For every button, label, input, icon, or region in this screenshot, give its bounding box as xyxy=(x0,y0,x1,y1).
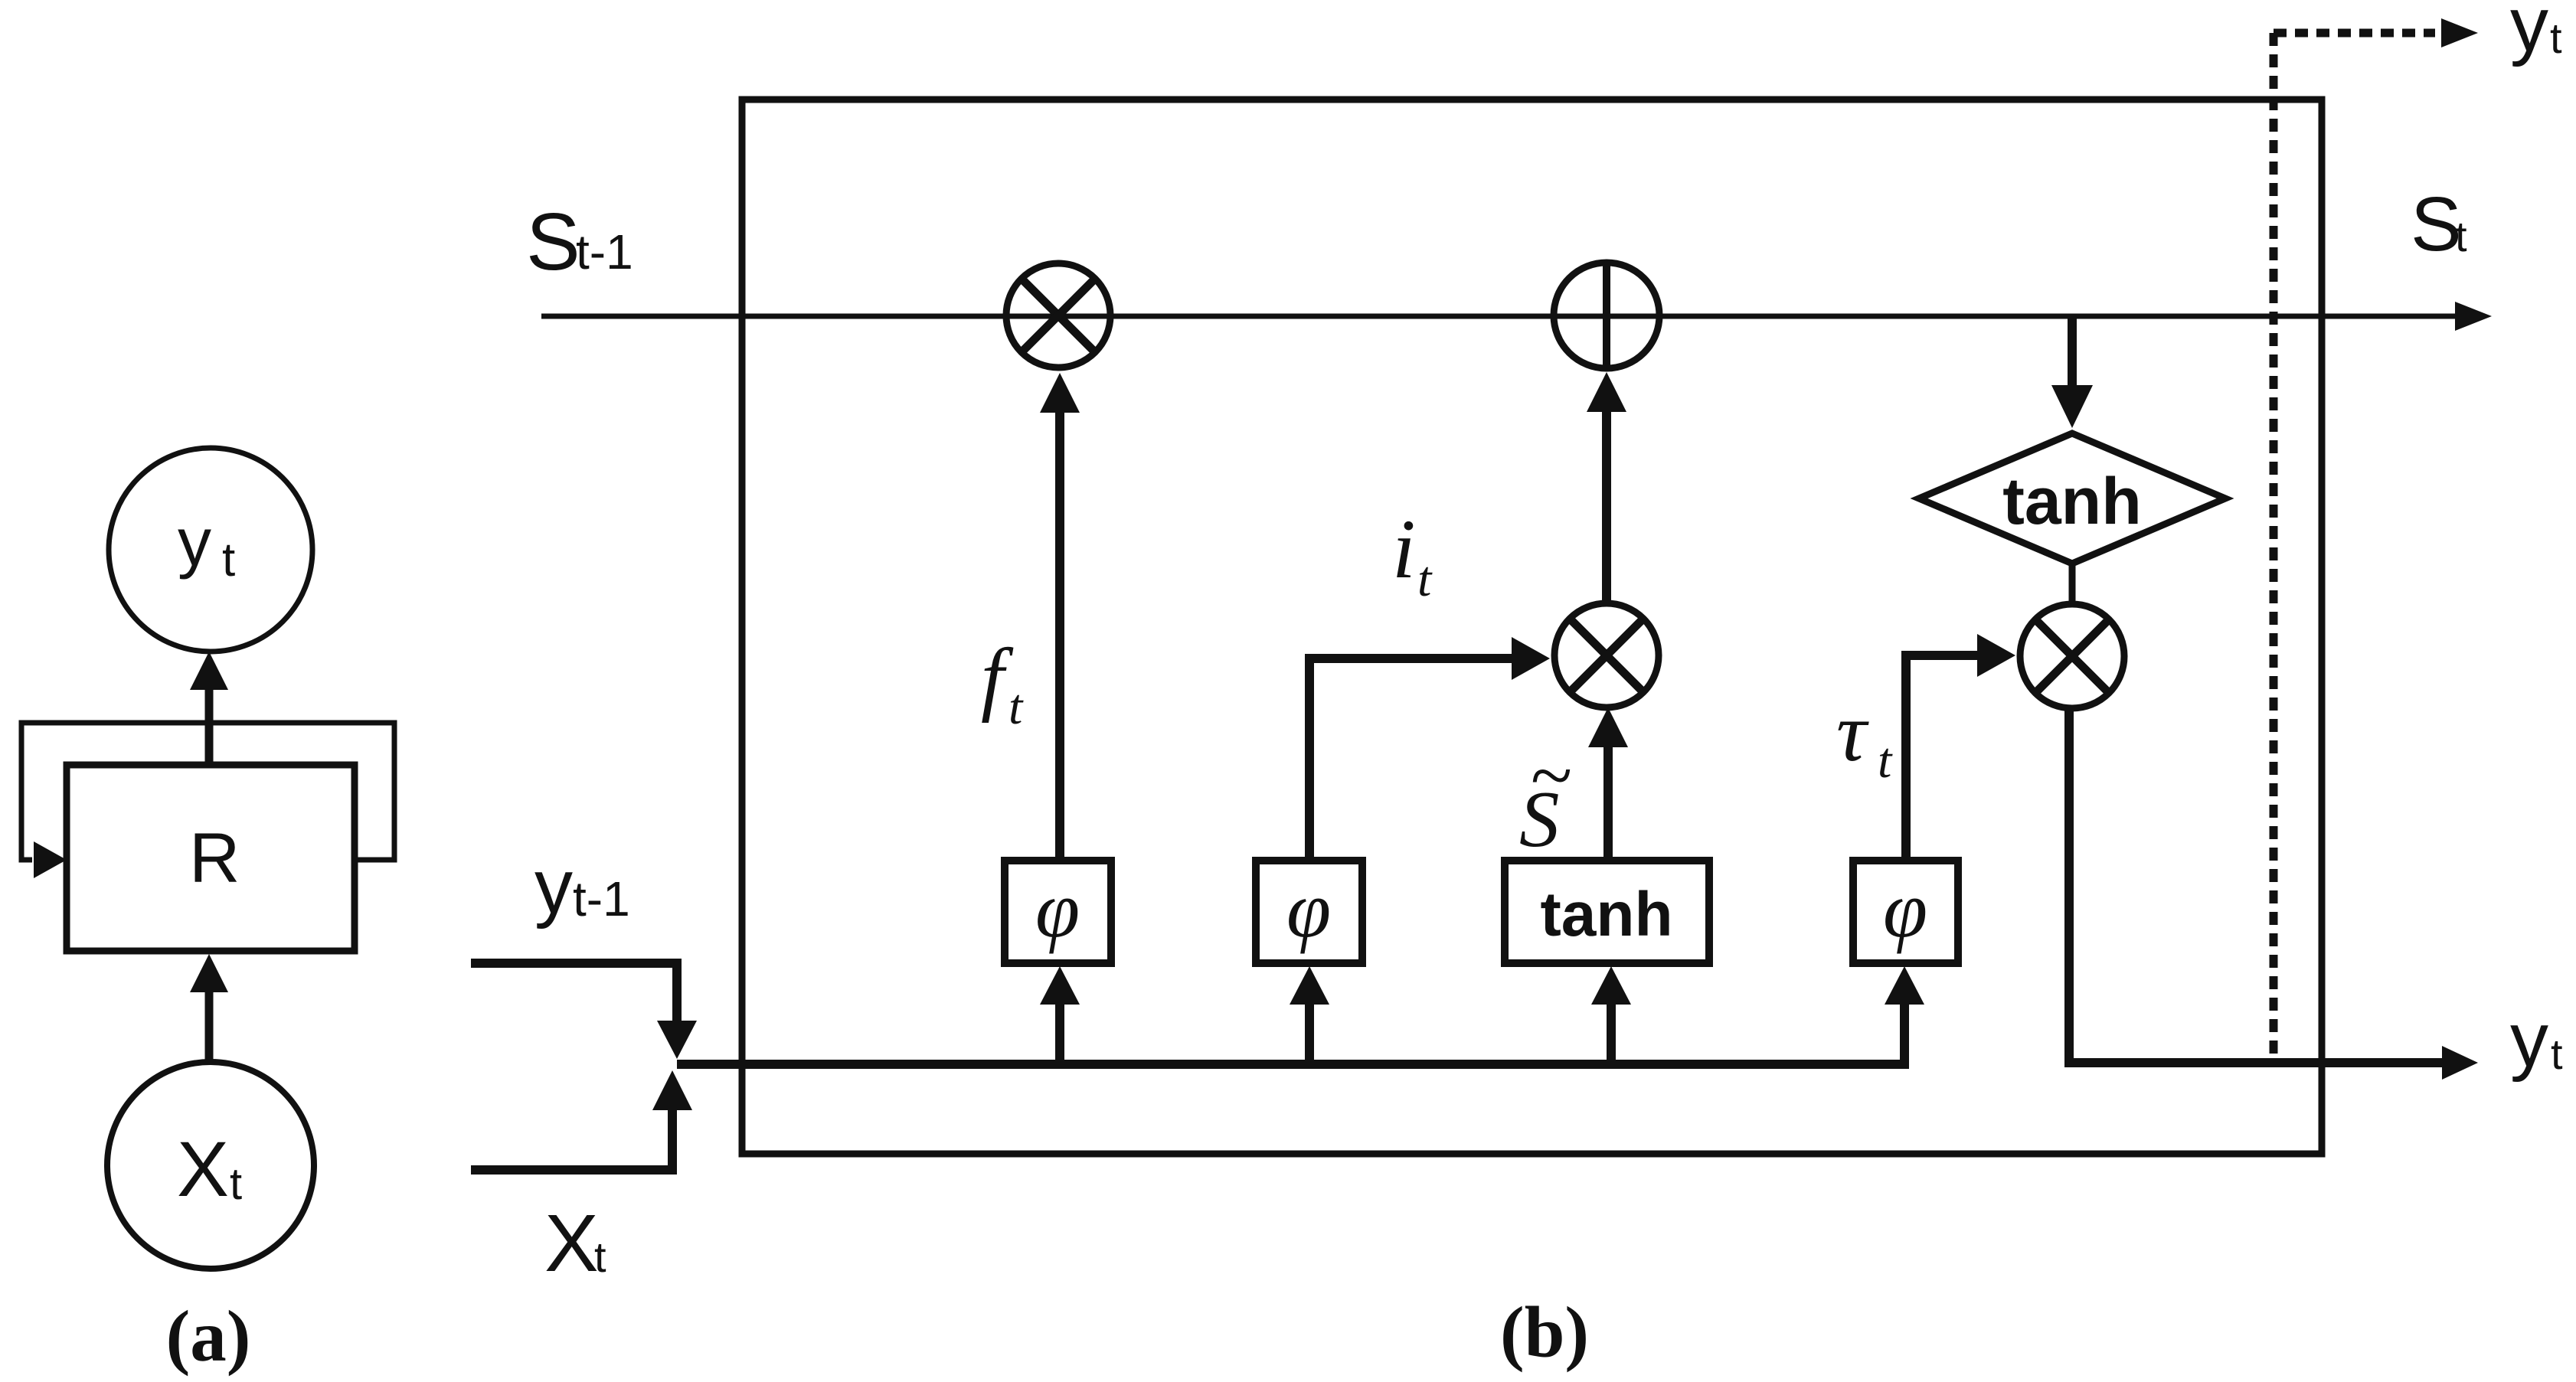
wire input to phi 2 arrow xyxy=(1290,966,1329,1066)
feedback loop rectangle (a) xyxy=(21,723,394,878)
svg-text:φ: φ xyxy=(1286,864,1331,954)
svg-text:t: t xyxy=(2455,212,2467,260)
wire Xt input arrow xyxy=(471,1070,692,1170)
wire output gate to yt xyxy=(2069,708,2478,1080)
svg-text:t: t xyxy=(1417,551,1433,607)
svg-text:y: y xyxy=(178,504,211,580)
wire Xt to R arrow xyxy=(190,954,228,1063)
wire merged input bus xyxy=(677,1001,1904,1064)
svg-text:R: R xyxy=(189,819,240,897)
svg-text:X: X xyxy=(177,1126,229,1213)
svg-text:i: i xyxy=(1392,502,1416,596)
wire input to phi 1 arrow xyxy=(1040,966,1080,1066)
LSTM cell box (b) xyxy=(742,100,2322,1154)
svg-text:t: t xyxy=(230,1159,242,1209)
wire ft arrow xyxy=(1040,373,1080,862)
svg-text:t: t xyxy=(594,1233,606,1281)
svg-text:tanh: tanh xyxy=(2002,465,2142,538)
multiply node output gate xyxy=(2020,604,2124,708)
svg-text:t: t xyxy=(2550,14,2562,62)
wire tanh to input gate arrow xyxy=(1588,707,1628,861)
wire input gate to add arrow xyxy=(1587,372,1626,603)
svg-text:(b): (b) xyxy=(1500,1292,1589,1373)
add node xyxy=(1554,263,1659,368)
wire state to diamond arrow xyxy=(2051,316,2093,428)
node yt (a) circle xyxy=(109,448,312,652)
wire R to yt arrow xyxy=(190,652,228,765)
node Xt (a) circle xyxy=(107,1062,314,1269)
svg-text:y: y xyxy=(2510,997,2548,1083)
svg-text:S: S xyxy=(2411,181,2462,267)
svg-text:S: S xyxy=(526,197,580,287)
dashed recurrence wire vertical xyxy=(2270,33,2278,1063)
svg-text:X: X xyxy=(544,1198,599,1289)
svg-text:φ: φ xyxy=(1035,864,1080,954)
gate phi 3 xyxy=(1853,861,1958,963)
multiply node input gate xyxy=(1554,603,1659,707)
svg-text:~: ~ xyxy=(1531,733,1572,818)
svg-text:t: t xyxy=(2551,1030,2563,1078)
wire tau elbow arrow xyxy=(1906,634,2015,861)
svg-text:y: y xyxy=(2510,0,2548,67)
wire y t-1 input arrow xyxy=(471,963,697,1059)
svg-text:t: t xyxy=(1008,679,1024,735)
svg-text:tanh: tanh xyxy=(1540,880,1672,949)
svg-text:φ: φ xyxy=(1883,864,1927,954)
svg-text:t: t xyxy=(1878,733,1893,789)
wire input to phi 3 arrow head xyxy=(1885,966,1924,1005)
wire it elbow arrow xyxy=(1309,637,1550,862)
block tanh xyxy=(1505,861,1709,963)
block R xyxy=(67,765,355,951)
wire cell state line St xyxy=(541,302,2492,331)
svg-text:t-1: t-1 xyxy=(576,224,633,279)
dashed recurrence wire horizontal arrow xyxy=(2274,18,2478,47)
svg-text:y: y xyxy=(534,844,573,930)
svg-text:(a): (a) xyxy=(166,1295,251,1377)
gate phi 2 xyxy=(1256,861,1362,963)
svg-text:t-1: t-1 xyxy=(573,871,630,926)
wire input to tanh arrow xyxy=(1591,966,1631,1066)
svg-text:τ: τ xyxy=(1836,685,1869,779)
gate phi 1 xyxy=(1005,861,1111,963)
svg-text:t: t xyxy=(222,534,235,586)
diamond tanh xyxy=(1919,433,2225,564)
wire diamond to output gate xyxy=(2069,564,2076,605)
multiply node forget gate xyxy=(1006,263,1110,368)
